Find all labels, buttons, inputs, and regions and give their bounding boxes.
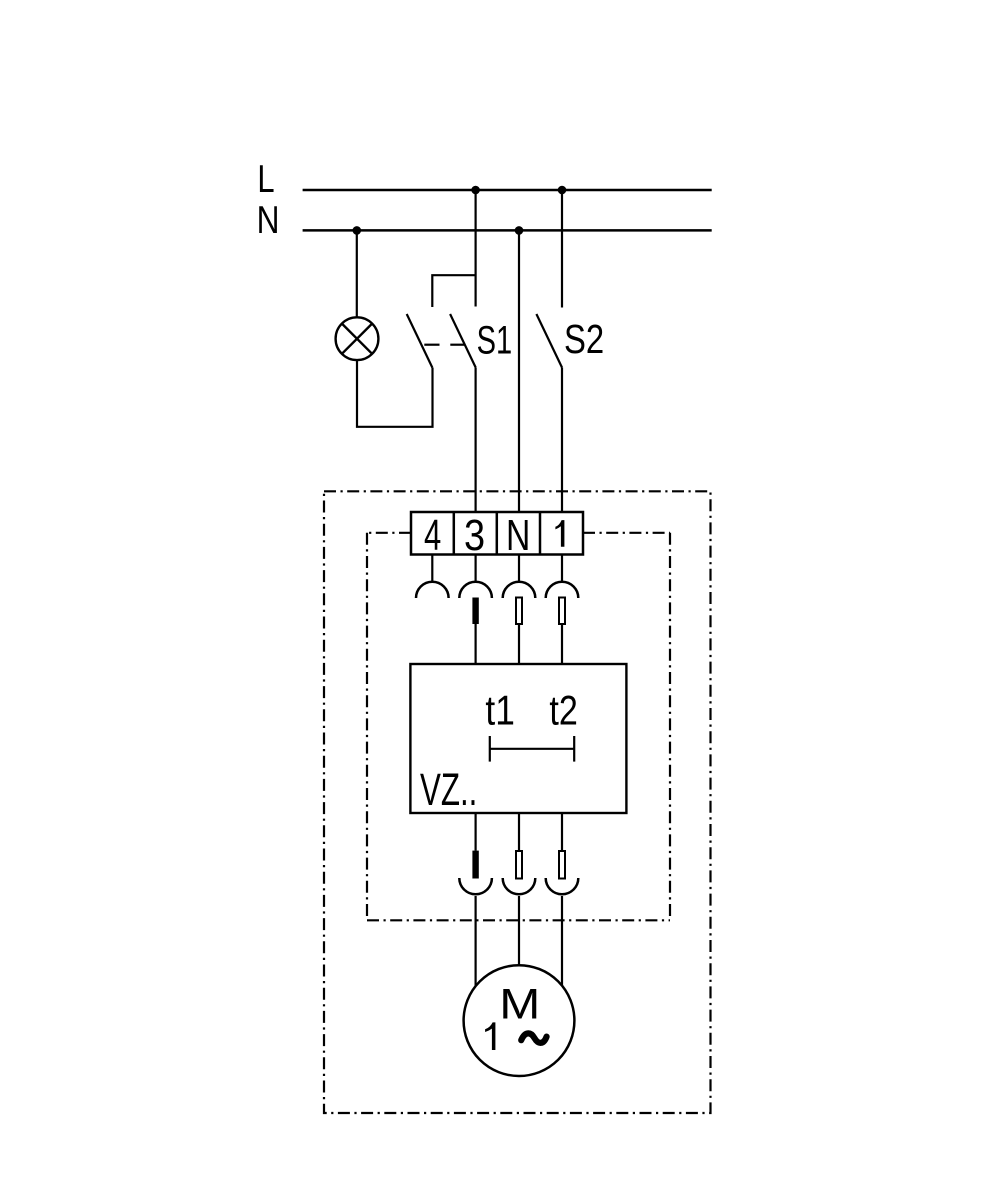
- wire socket a to motor: [475, 896, 477, 987]
- label VZ..: [420, 765, 477, 815]
- svg-text:N: N: [257, 198, 280, 242]
- wire L drop to S1 right pole: [475, 190, 477, 307]
- wire socket b to motor: [518, 896, 520, 966]
- wire lamp to S1 left pole bottom: [357, 361, 433, 427]
- terminal strip box: [411, 512, 583, 555]
- terminal label 1: [555, 520, 564, 547]
- switch S1 coupling dashes: [424, 344, 464, 346]
- wire pinN to VZ box: [518, 624, 520, 664]
- node junction N/x357: [353, 226, 362, 235]
- wire jog to S1 left pole: [432, 275, 475, 307]
- node junction L/x475: [471, 186, 480, 195]
- switch S2 blade: [536, 314, 562, 368]
- socket lower c: [546, 878, 579, 894]
- terminal label 4: [424, 511, 441, 559]
- svg-text:VZ..: VZ..: [420, 765, 477, 815]
- svg-text:3: 3: [464, 511, 485, 560]
- label S2: [564, 317, 604, 362]
- svg-text:S2: S2: [564, 317, 604, 362]
- motor tilde: [521, 1033, 546, 1043]
- node junction L/x562: [558, 186, 567, 195]
- wire stub under terminal 4: [431, 555, 433, 582]
- wire stub under terminal N: [518, 555, 520, 582]
- pin solid lower a: [472, 851, 478, 879]
- timing bar: [490, 736, 574, 762]
- switch S1 left blade: [407, 314, 433, 368]
- wire N drop to terminal N: [518, 230, 520, 512]
- wire stub under terminal 3: [475, 555, 477, 582]
- pin open under terminal 1: [559, 598, 565, 625]
- wire N bus: [303, 229, 712, 232]
- pin open lower c: [559, 851, 565, 879]
- node junction N/x519: [515, 226, 524, 235]
- wire pin3 to VZ box: [475, 624, 477, 664]
- wire pin1 to VZ box: [561, 624, 563, 664]
- label N: [257, 198, 280, 242]
- enclosure outer dash-dot box: [324, 491, 711, 1113]
- label L: [257, 158, 274, 201]
- terminal label N: [506, 512, 530, 560]
- pin solid under terminal 3: [472, 598, 478, 625]
- svg-text:N: N: [506, 512, 530, 560]
- terminal label 3: [464, 511, 485, 560]
- svg-text:M: M: [499, 980, 540, 1028]
- socket lower b: [503, 878, 536, 894]
- wire VZ to pin c: [561, 813, 563, 851]
- motor M1 circle: [464, 965, 575, 1076]
- socket under terminal 3: [459, 582, 492, 598]
- pin open lower b: [516, 851, 522, 879]
- label t1: [485, 688, 514, 734]
- wire VZ to pin b: [518, 813, 520, 851]
- svg-text:S1: S1: [477, 318, 513, 363]
- wire N to lamp: [356, 230, 358, 317]
- svg-text:t1: t1: [485, 688, 514, 734]
- label t2: [549, 689, 577, 735]
- pin open under terminal N: [516, 598, 522, 625]
- socket under terminal 4: [416, 582, 449, 598]
- label S1: [477, 318, 513, 363]
- wire VZ to pin a: [475, 813, 477, 851]
- wire stub under terminal 1: [561, 555, 563, 582]
- lamp E1: [336, 317, 379, 360]
- wire socket c to motor: [561, 896, 563, 987]
- motor label 1: [485, 1022, 495, 1050]
- wire L drop to S2: [561, 190, 563, 308]
- svg-text:L: L: [257, 158, 274, 201]
- wire S1 right pole to terminal 3: [475, 368, 477, 513]
- wire L bus: [303, 189, 712, 192]
- switch S1 right blade: [450, 314, 476, 368]
- svg-text:t2: t2: [549, 689, 577, 735]
- wire S2 to terminal 1: [561, 368, 563, 513]
- motor label M: [499, 980, 540, 1028]
- socket under terminal N: [503, 582, 536, 598]
- enclosure inner dash-dot box: [367, 533, 670, 921]
- socket under terminal 1: [546, 582, 579, 598]
- svg-text:4: 4: [424, 511, 441, 559]
- controller box VZ..: [410, 664, 626, 813]
- socket lower a: [459, 878, 492, 894]
